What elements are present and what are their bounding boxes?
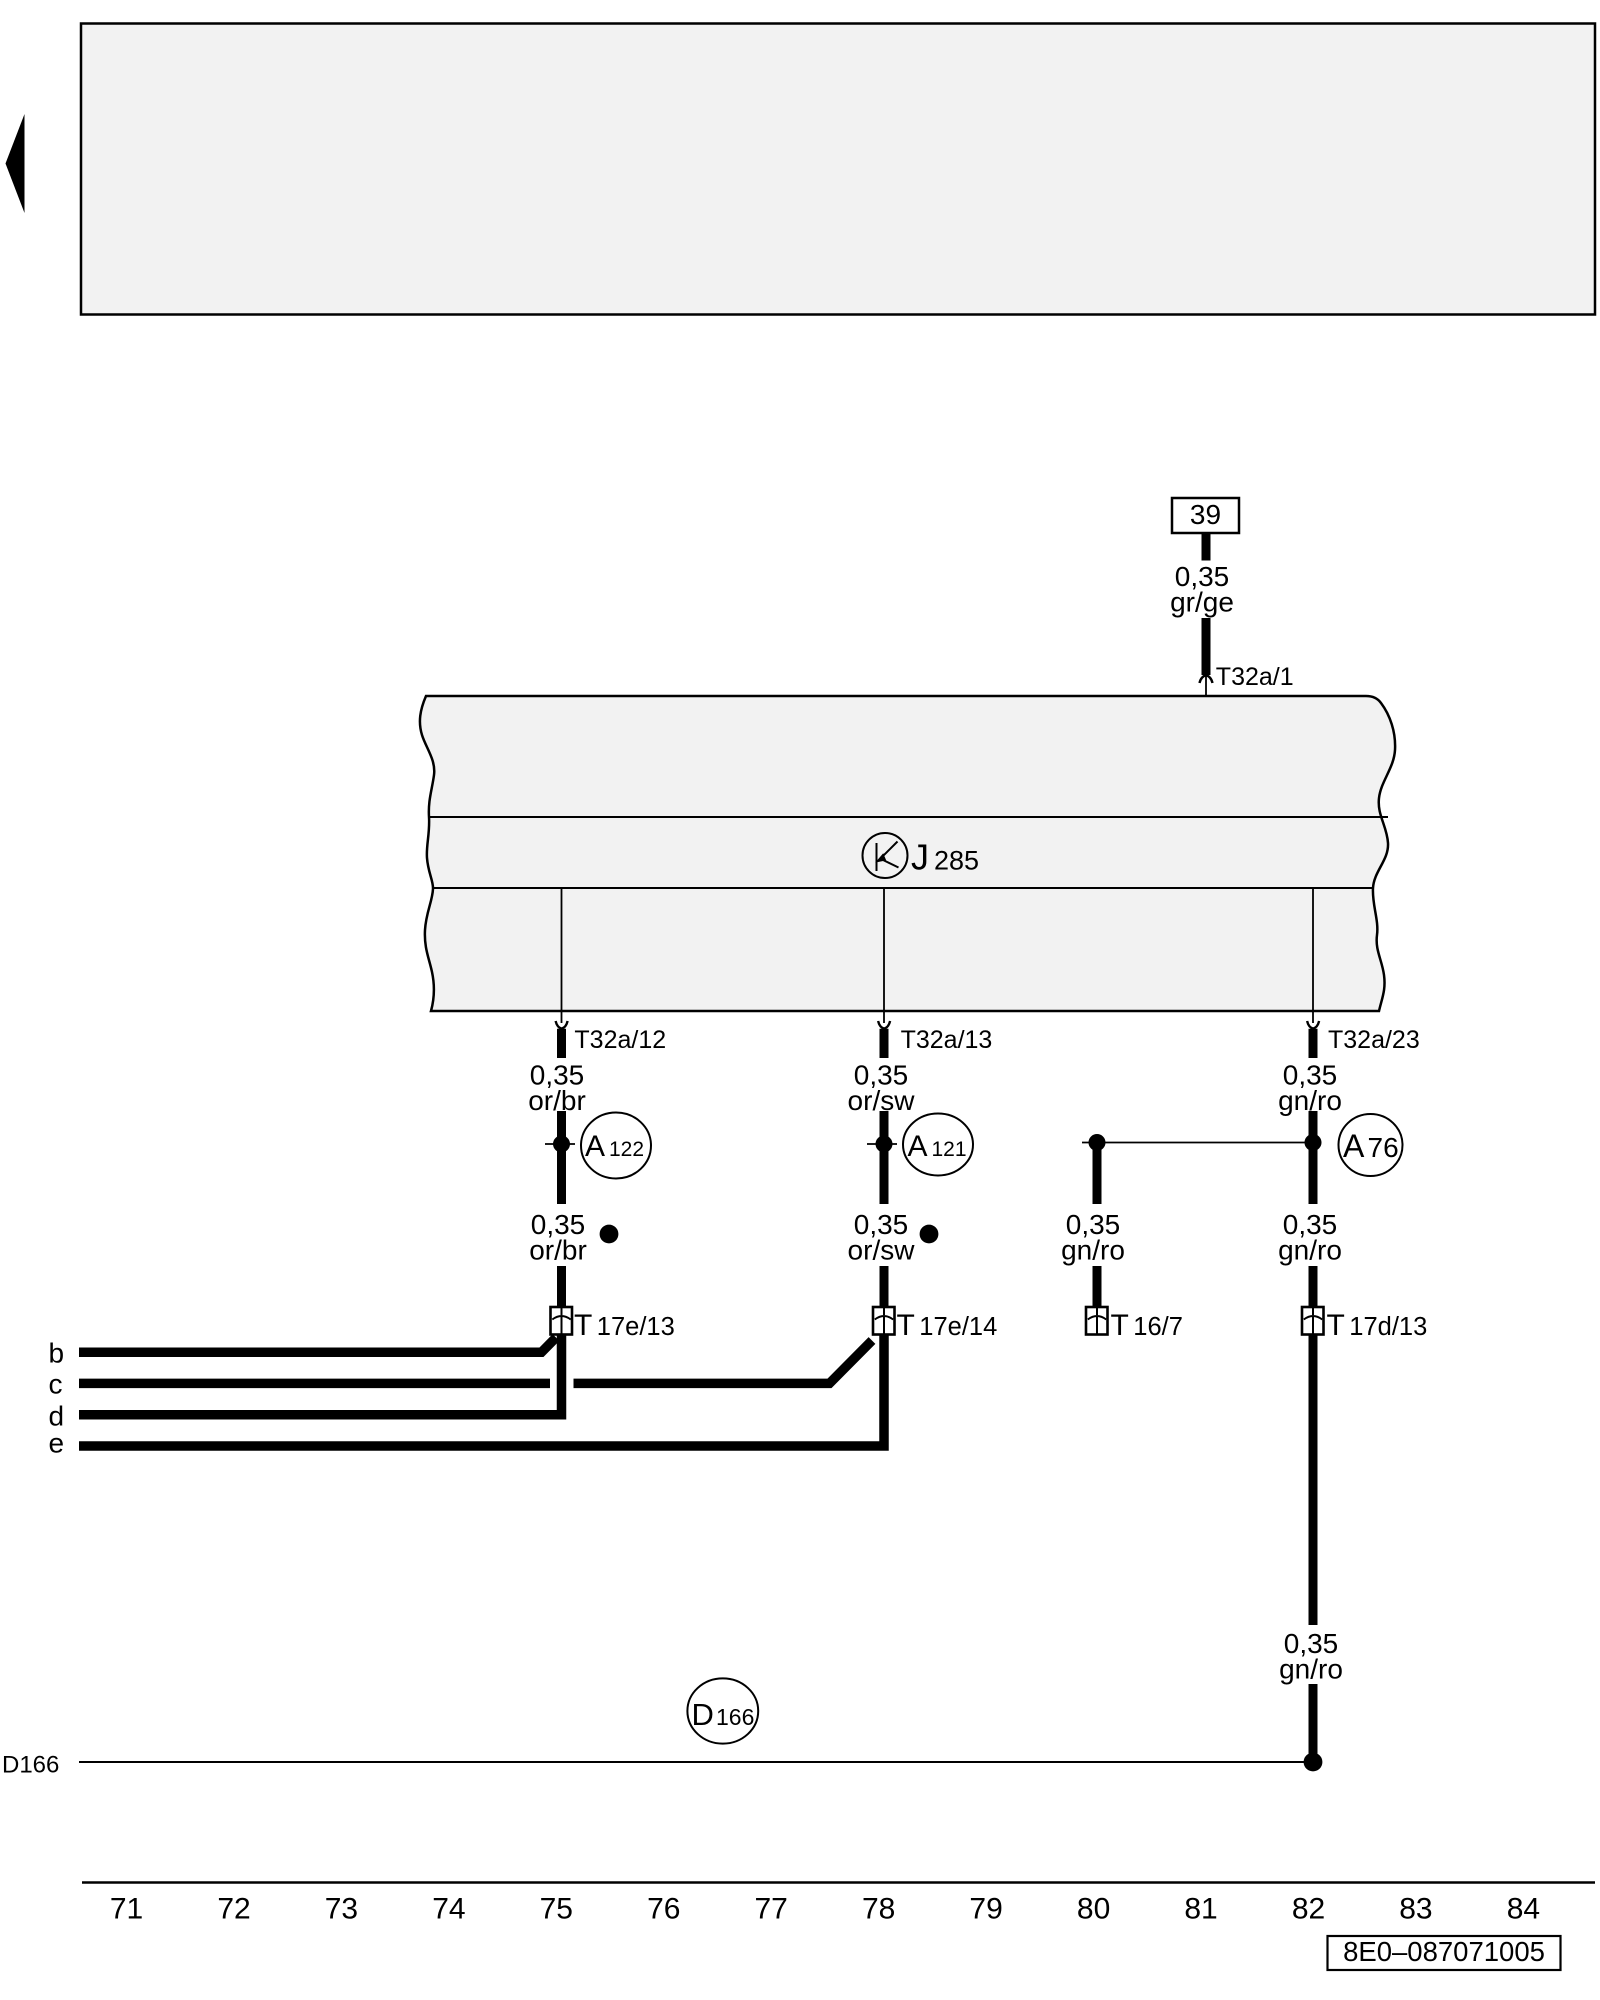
wire stub T32a/12 [557, 1029, 566, 1058]
junction tick A121 [867, 1143, 897, 1145]
wire segment or/br to connector [557, 1266, 566, 1307]
svg-text:T: T [574, 1309, 592, 1342]
svg-text:80: 80 [1077, 1893, 1110, 1926]
wire e [79, 1334, 884, 1446]
pin lead T32a/1 inside box [1205, 676, 1207, 817]
designator circle D166 [687, 1678, 758, 1743]
page direction arrow [6, 114, 25, 213]
svg-text:74: 74 [432, 1893, 465, 1926]
svg-text:82: 82 [1292, 1893, 1325, 1926]
band separator lower [433, 887, 1373, 889]
band separator upper [429, 816, 1388, 818]
svg-text:b: b [49, 1338, 65, 1369]
drawing number box [1328, 1936, 1561, 1970]
long wire below T17d/13 [1309, 1334, 1318, 1625]
svg-text:79: 79 [969, 1893, 1002, 1926]
J285 instrument symbol [863, 833, 908, 878]
svg-text:77: 77 [755, 1893, 788, 1926]
connector T17e/13 [551, 1307, 573, 1335]
marker dot right of or/br label [600, 1225, 619, 1244]
svg-text:17e/13: 17e/13 [597, 1313, 675, 1341]
svg-text:D: D [692, 1697, 714, 1732]
svg-text:166: 166 [716, 1704, 754, 1730]
wire c [79, 1379, 550, 1389]
wire to ground point [1309, 1684, 1318, 1757]
terminal arrow T32a/1 [1200, 675, 1213, 683]
junction dot T16/7 branch [1089, 1134, 1106, 1151]
wire b [79, 1338, 556, 1353]
wire segment gn/ro to connector [1309, 1266, 1318, 1307]
svg-text:D166: D166 [2, 1752, 59, 1779]
pin lead T32a/23 inside box [1312, 888, 1314, 1011]
svg-text:A: A [908, 1130, 928, 1163]
svg-text:J: J [911, 837, 929, 878]
junction dot A76 [1305, 1134, 1322, 1151]
pin T32a/12 lead below box [561, 1011, 563, 1023]
wire segment or/br [557, 1111, 566, 1204]
track scale line [82, 1881, 1595, 1884]
terminal 39 box [1172, 498, 1239, 533]
svg-text:e: e [49, 1428, 65, 1459]
designator circle A76 [1339, 1114, 1403, 1176]
svg-text:121: 121 [932, 1138, 967, 1161]
junction dot D166 [1304, 1753, 1323, 1772]
terminal arrow T32a/23 [1307, 1021, 1319, 1029]
wire segment or/sw to connector [880, 1266, 889, 1307]
terminal arrow T32a/13 [878, 1021, 890, 1029]
connector T17e/14 [873, 1307, 895, 1335]
title block [81, 24, 1595, 315]
pin T32a/13 lead below box [883, 1011, 885, 1023]
branch line to T16/7 [1082, 1142, 1313, 1144]
control unit J285 box [420, 696, 1395, 1011]
svg-text:or/sw: or/sw [848, 1235, 916, 1266]
connector T17d/13 [1302, 1307, 1324, 1335]
terminal arrow T32a/12 [556, 1021, 568, 1029]
branch wire to T16/7 [1093, 1148, 1102, 1204]
connector T16/7 [1086, 1307, 1108, 1335]
svg-text:39: 39 [1190, 499, 1221, 530]
svg-text:73: 73 [325, 1893, 358, 1926]
wire segment gn/ro upper [1309, 1111, 1318, 1204]
pin T32a/23 lead below box [1312, 1011, 1314, 1023]
svg-text:or/br: or/br [529, 1235, 587, 1266]
svg-text:T32a/12: T32a/12 [574, 1026, 666, 1054]
svg-text:T32a/13: T32a/13 [901, 1026, 993, 1054]
svg-text:gn/ro: gn/ro [1061, 1235, 1125, 1266]
svg-text:8E0–087071005: 8E0–087071005 [1343, 1936, 1545, 1967]
junction tick A122 [545, 1143, 575, 1145]
svg-text:gn/ro: gn/ro [1278, 1235, 1342, 1266]
designator circle A122 [581, 1113, 651, 1179]
designator circle A121 [903, 1114, 973, 1176]
svg-text:17e/14: 17e/14 [919, 1313, 997, 1341]
junction dot A122 [553, 1136, 570, 1153]
svg-text:gr/ge: gr/ge [1170, 587, 1234, 618]
junction dot A121 [876, 1136, 893, 1153]
svg-text:c: c [49, 1369, 63, 1400]
pin lead T32a/13 inside box [883, 888, 885, 1011]
wire stub T32a/23 [1309, 1029, 1318, 1058]
svg-text:A: A [585, 1130, 605, 1163]
pin lead T32a/12 inside box [561, 888, 563, 1011]
svg-text:122: 122 [609, 1138, 644, 1161]
svg-text:76: 76 [647, 1893, 680, 1926]
marker dot right of or/sw label [920, 1225, 939, 1244]
svg-text:T32a/1: T32a/1 [1216, 663, 1294, 691]
wire segment or/sw [880, 1111, 889, 1204]
svg-text:75: 75 [540, 1893, 573, 1926]
svg-text:72: 72 [217, 1893, 250, 1926]
svg-text:gn/ro: gn/ro [1279, 1654, 1343, 1685]
wire stub T32a/13 [880, 1029, 889, 1058]
svg-text:T32a/23: T32a/23 [1328, 1026, 1420, 1054]
svg-text:81: 81 [1184, 1893, 1217, 1926]
ground wire D166 [79, 1761, 1313, 1763]
svg-text:T: T [897, 1309, 915, 1342]
svg-text:T: T [1327, 1309, 1345, 1342]
wire 0,35 gr/ge lower segment [1202, 618, 1211, 675]
svg-text:71: 71 [110, 1893, 143, 1926]
svg-text:A: A [1343, 1128, 1365, 1164]
svg-text:84: 84 [1507, 1893, 1540, 1926]
svg-text:83: 83 [1399, 1893, 1432, 1926]
svg-text:285: 285 [934, 846, 979, 876]
svg-text:T: T [1111, 1309, 1129, 1342]
svg-text:76: 76 [1368, 1132, 1399, 1163]
branch wire to T16/7 lower [1093, 1266, 1102, 1307]
svg-text:16/7: 16/7 [1133, 1313, 1183, 1341]
svg-text:78: 78 [862, 1893, 895, 1926]
wire 0,35 gr/ge upper segment [1202, 533, 1211, 561]
svg-text:17d/13: 17d/13 [1349, 1313, 1427, 1341]
wire d [79, 1334, 562, 1415]
